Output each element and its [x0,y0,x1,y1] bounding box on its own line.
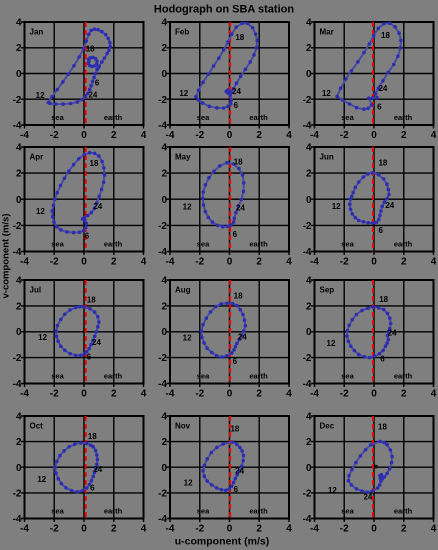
red u=0 line Aug [229,280,231,384]
svg-text:4: 4 [141,130,147,141]
hodograph curve May [203,163,244,227]
svg-text:-2: -2 [303,488,312,499]
svg-text:u-component (m/s): u-component (m/s) [175,536,270,548]
svg-text:0: 0 [371,130,377,141]
svg-text:sea: sea [341,240,354,249]
svg-text:18: 18 [235,33,244,42]
hodograph curve Nov [203,442,244,490]
svg-text:0: 0 [227,130,233,141]
tick marks May [167,147,290,255]
svg-text:4: 4 [161,276,167,287]
svg-text:6: 6 [87,353,92,362]
svg-text:v-component (m/s): v-component (m/s) [1,214,12,299]
svg-text:2: 2 [256,524,262,535]
markers Feb [196,23,257,108]
svg-text:earth: earth [104,240,123,249]
svg-text:2: 2 [306,301,312,312]
svg-text:-4: -4 [166,524,175,535]
svg-text:12: 12 [37,475,46,484]
svg-text:6: 6 [380,355,385,364]
red u=0 line May [229,147,231,252]
grid Dec [315,416,434,519]
svg-text:-2: -2 [50,257,59,268]
svg-text:sea: sea [197,507,210,516]
markers Jun [350,173,389,223]
axes border Sep [315,280,434,384]
svg-text:24: 24 [236,203,245,212]
svg-text:-4: -4 [310,524,319,535]
svg-text:-2: -2 [340,130,349,141]
svg-text:-2: -2 [158,488,167,499]
svg-text:2: 2 [16,169,22,180]
svg-text:18: 18 [379,295,388,304]
svg-text:4: 4 [16,412,22,423]
svg-text:0: 0 [306,327,312,338]
svg-text:24: 24 [232,87,241,96]
svg-text:0: 0 [227,389,233,400]
svg-text:sea: sea [341,113,354,122]
svg-text:0: 0 [371,257,377,268]
svg-text:24: 24 [235,467,244,476]
svg-text:0: 0 [371,524,377,535]
svg-text:0: 0 [306,195,312,206]
svg-text:4: 4 [16,143,22,154]
svg-text:2: 2 [306,169,312,180]
hodograph curve Jan [48,29,110,104]
svg-text:4: 4 [431,389,437,400]
svg-text:6: 6 [95,79,100,88]
svg-text:-2: -2 [50,389,59,400]
svg-text:0: 0 [371,389,377,400]
tick marks Jan [21,22,144,129]
svg-text:-2: -2 [303,221,312,232]
svg-text:-2: -2 [195,389,204,400]
subplot Mar [303,18,437,142]
svg-text:sea: sea [341,507,354,516]
svg-text:0: 0 [81,130,87,141]
svg-text:12: 12 [328,486,337,495]
red u=0 line Oct [85,416,87,519]
svg-text:18: 18 [230,424,239,433]
axes border Feb [170,22,289,125]
hodograph curve Sep [347,307,391,358]
svg-text:4: 4 [16,276,22,287]
grid Jan [25,22,144,125]
axes border Aug [170,280,289,384]
hodograph curve Apr [52,153,104,233]
svg-text:Nov: Nov [175,422,191,431]
svg-text:0: 0 [227,257,233,268]
subplot Nov [158,412,292,535]
svg-text:earth: earth [394,113,413,122]
svg-text:12: 12 [36,91,45,100]
svg-text:earth: earth [104,507,123,516]
svg-text:2: 2 [401,257,407,268]
svg-text:6: 6 [378,226,383,235]
svg-text:-4: -4 [310,389,319,400]
tick marks Apr [21,147,144,255]
svg-text:0: 0 [227,524,233,535]
svg-text:6: 6 [234,101,239,110]
svg-text:-2: -2 [158,353,167,364]
svg-text:-2: -2 [13,353,22,364]
markers Apr [52,153,104,233]
grid Apr [25,147,144,252]
markers Nov [203,442,244,490]
svg-text:2: 2 [401,389,407,400]
svg-text:4: 4 [306,276,312,287]
svg-text:sea: sea [197,113,210,122]
tick marks Feb [167,22,290,129]
svg-text:2: 2 [256,130,262,141]
svg-text:-4: -4 [13,379,22,390]
red u=0 line Jan [85,22,87,125]
svg-text:24: 24 [385,201,394,210]
axes border Nov [170,416,289,519]
svg-text:4: 4 [431,257,437,268]
svg-text:2: 2 [256,389,262,400]
subplot Aug [158,276,292,400]
svg-text:4: 4 [286,130,292,141]
svg-text:18: 18 [378,158,387,167]
svg-text:-2: -2 [13,95,22,106]
svg-text:2: 2 [401,130,407,141]
subplot Jun [303,143,437,268]
svg-text:-2: -2 [340,257,349,268]
svg-text:2: 2 [161,301,167,312]
grid Nov [170,416,289,519]
svg-text:Oct: Oct [30,422,44,431]
tick marks Dec [311,416,434,522]
svg-text:4: 4 [306,18,312,29]
svg-text:2: 2 [16,437,22,448]
hodograph curve Oct [55,443,97,492]
svg-text:Dec: Dec [320,422,335,431]
svg-text:0: 0 [306,69,312,80]
hodograph curve Aug [202,303,246,357]
svg-text:2: 2 [401,524,407,535]
svg-text:4: 4 [16,18,22,29]
axes border Mar [315,22,434,125]
svg-text:12: 12 [36,207,45,216]
grid May [170,147,289,252]
hodograph curve Jun [350,173,389,223]
axes border Oct [25,416,144,519]
svg-text:18: 18 [234,291,243,300]
svg-text:2: 2 [111,389,117,400]
svg-text:2: 2 [111,257,117,268]
svg-text:Mar: Mar [320,28,334,37]
axes border Apr [25,147,144,252]
axes border Dec [315,416,434,519]
svg-text:-4: -4 [20,130,29,141]
svg-text:0: 0 [81,389,87,400]
svg-text:12: 12 [327,339,336,348]
red u=0 line Jun [372,147,374,252]
svg-text:4: 4 [286,524,292,535]
markers Aug [202,303,246,357]
svg-text:24: 24 [93,465,102,474]
svg-text:Apr: Apr [30,153,44,162]
svg-text:-4: -4 [166,130,175,141]
subplot May [158,143,292,268]
svg-text:0: 0 [161,463,167,474]
svg-text:2: 2 [161,169,167,180]
svg-text:18: 18 [88,432,97,441]
axes border May [170,147,289,252]
svg-text:12: 12 [179,89,188,98]
svg-text:4: 4 [306,143,312,154]
svg-text:-4: -4 [310,130,319,141]
grid Jul [25,280,144,384]
svg-text:18: 18 [90,159,99,168]
svg-text:sea: sea [51,113,64,122]
grid Aug [170,280,289,384]
red u=0 line Dec [372,416,374,519]
svg-text:4: 4 [161,412,167,423]
svg-text:-4: -4 [158,514,167,525]
hodograph curve Mar [337,23,401,109]
subplot Apr [13,143,147,268]
svg-text:0: 0 [16,69,22,80]
svg-text:4: 4 [286,389,292,400]
svg-text:2: 2 [256,257,262,268]
svg-text:6: 6 [90,484,95,493]
svg-text:earth: earth [394,372,413,381]
svg-text:-2: -2 [340,389,349,400]
svg-text:-2: -2 [158,95,167,106]
tick marks Oct [21,416,144,522]
svg-text:-2: -2 [50,130,59,141]
markers Jan [48,29,110,104]
red u=0 line Sep [372,280,374,384]
svg-text:earth: earth [249,372,268,381]
svg-text:12: 12 [332,202,341,211]
grid Feb [170,22,289,125]
tick marks Aug [167,280,290,387]
svg-text:-2: -2 [340,524,349,535]
markers Jul [56,307,99,356]
svg-text:24: 24 [378,84,387,93]
svg-text:-2: -2 [195,130,204,141]
svg-text:earth: earth [394,240,413,249]
svg-text:earth: earth [394,507,413,516]
red u=0 line Jul [85,280,87,384]
grid Sep [315,280,434,384]
svg-text:12: 12 [38,333,47,342]
svg-text:-4: -4 [13,247,22,258]
svg-text:-4: -4 [158,121,167,132]
svg-text:4: 4 [431,524,437,535]
svg-text:2: 2 [16,43,22,54]
svg-text:24: 24 [88,91,97,100]
svg-text:-4: -4 [158,379,167,390]
subplot Dec [303,412,437,535]
svg-text:-2: -2 [13,221,22,232]
axes border Jan [25,22,144,125]
svg-text:24: 24 [93,202,102,211]
svg-text:-4: -4 [166,389,175,400]
svg-text:6: 6 [233,230,238,239]
svg-text:-4: -4 [13,514,22,525]
svg-text:6: 6 [85,232,90,241]
grid Mar [315,22,434,125]
svg-text:4: 4 [431,130,437,141]
svg-text:sea: sea [197,240,210,249]
svg-text:0: 0 [16,195,22,206]
svg-text:-2: -2 [50,524,59,535]
svg-text:4: 4 [161,18,167,29]
hodograph curve Jul [56,307,99,356]
svg-text:-4: -4 [20,257,29,268]
grid Jun [315,147,434,252]
svg-text:2: 2 [16,301,22,312]
red u=0 line Nov [229,416,231,519]
svg-text:12: 12 [183,334,192,343]
svg-text:Sep: Sep [320,286,335,295]
svg-text:12: 12 [183,202,192,211]
subplot Sep [303,276,437,400]
axes border Jul [25,280,144,384]
svg-text:Jan: Jan [30,28,44,37]
markers Sep [347,307,391,358]
grid Oct [25,416,144,519]
svg-text:Hodograph on SBA station: Hodograph on SBA station [154,4,294,16]
svg-text:0: 0 [81,524,87,535]
svg-text:-4: -4 [303,121,312,132]
svg-text:18: 18 [381,31,390,40]
svg-text:May: May [175,153,191,162]
svg-text:4: 4 [161,143,167,154]
svg-text:-4: -4 [303,514,312,525]
svg-text:sea: sea [51,372,64,381]
hodograph curve Dec [348,441,392,492]
svg-text:-2: -2 [195,524,204,535]
svg-text:4: 4 [141,257,147,268]
svg-text:0: 0 [306,463,312,474]
red u=0 line Feb [229,22,231,125]
tick marks Nov [167,416,290,522]
svg-text:sea: sea [51,240,64,249]
subplot Feb [158,18,292,142]
markers Oct [55,443,97,492]
svg-text:2: 2 [111,524,117,535]
svg-text:24: 24 [238,332,247,341]
svg-text:4: 4 [141,524,147,535]
svg-text:4: 4 [306,412,312,423]
svg-text:6: 6 [377,103,382,112]
svg-text:12: 12 [322,89,331,98]
svg-text:earth: earth [249,507,268,516]
svg-text:2: 2 [306,43,312,54]
svg-text:sea: sea [197,372,210,381]
svg-text:Jul: Jul [30,286,42,295]
svg-text:0: 0 [161,69,167,80]
svg-text:0: 0 [81,257,87,268]
svg-text:earth: earth [249,113,268,122]
svg-text:earth: earth [104,113,123,122]
svg-text:24: 24 [388,329,397,338]
svg-text:earth: earth [104,372,123,381]
svg-text:4: 4 [141,389,147,400]
svg-text:Feb: Feb [175,28,189,37]
svg-text:-2: -2 [13,488,22,499]
svg-text:-4: -4 [20,524,29,535]
black origin marker Dec [374,465,378,469]
tick marks Jun [311,147,434,255]
svg-text:2: 2 [111,130,117,141]
svg-text:Jun: Jun [320,153,334,162]
svg-text:2: 2 [161,437,167,448]
svg-text:-2: -2 [303,95,312,106]
svg-text:sea: sea [51,507,64,516]
svg-text:-2: -2 [303,353,312,364]
svg-text:4: 4 [286,257,292,268]
tick marks Mar [311,22,434,129]
svg-text:18: 18 [86,44,95,53]
markers Mar [337,23,401,109]
svg-text:-4: -4 [303,379,312,390]
svg-text:Aug: Aug [175,286,191,295]
subplot Oct [13,412,147,535]
subplot Jan [13,18,147,142]
red u=0 line Mar [372,22,374,125]
svg-text:0: 0 [161,195,167,206]
svg-text:-4: -4 [13,121,22,132]
svg-text:earth: earth [249,240,268,249]
svg-text:12: 12 [184,479,193,488]
svg-text:sea: sea [341,372,354,381]
svg-text:0: 0 [161,327,167,338]
svg-text:2: 2 [306,437,312,448]
svg-text:-2: -2 [158,221,167,232]
svg-text:24: 24 [92,338,101,347]
svg-text:24: 24 [363,493,372,502]
svg-text:18: 18 [234,158,243,167]
svg-text:6: 6 [233,357,238,366]
svg-text:-4: -4 [20,389,29,400]
tick marks Sep [311,280,434,387]
svg-text:6: 6 [234,485,239,494]
svg-text:-4: -4 [303,247,312,258]
red u=0 line Apr [85,147,87,252]
svg-text:0: 0 [16,327,22,338]
svg-text:-2: -2 [195,257,204,268]
svg-text:18: 18 [378,423,387,432]
svg-text:2: 2 [161,43,167,54]
svg-text:-4: -4 [310,257,319,268]
markers May [203,163,244,227]
tick marks Jul [21,280,144,387]
svg-text:18: 18 [87,295,96,304]
svg-text:-4: -4 [158,247,167,258]
svg-text:0: 0 [16,463,22,474]
hodograph curve Feb [196,23,257,108]
svg-text:-4: -4 [166,257,175,268]
subplot Jul [13,276,147,400]
axes border Jun [315,147,434,252]
markers Dec [348,441,392,492]
